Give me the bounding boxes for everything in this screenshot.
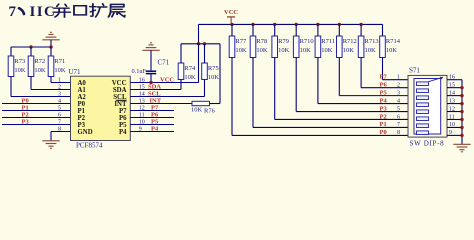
wire top-left rail <box>11 46 51 48</box>
wire pin16 VCC <box>130 82 198 84</box>
IC U71 right pin names <box>112 80 127 136</box>
wire R79 to S71 pin6 <box>275 58 408 120</box>
node bus junction pin13 <box>460 102 463 105</box>
wire ground bus right <box>461 80 463 145</box>
wire R79 top lead <box>274 24 276 36</box>
svg-text:8: 8 <box>58 126 61 132</box>
resistor R710 <box>293 36 313 58</box>
svg-text:P3: P3 <box>380 105 388 112</box>
svg-text:U71: U71 <box>69 68 82 76</box>
svg-text:10K: 10K <box>321 47 333 54</box>
svg-text:P0: P0 <box>22 97 29 104</box>
wire R713 top lead <box>360 24 362 36</box>
svg-text:R73: R73 <box>14 58 25 65</box>
svg-text:SCL: SCL <box>148 90 161 97</box>
capacitor C71 designator <box>158 59 170 67</box>
switch S71 designator <box>409 67 420 75</box>
wire R712 to S71 pin3 <box>339 58 408 96</box>
svg-text:P4: P4 <box>119 129 127 136</box>
svg-text:P2: P2 <box>22 111 29 118</box>
svg-text:14: 14 <box>449 90 455 96</box>
svg-text:3: 3 <box>58 91 61 97</box>
net label P2 <box>22 111 29 118</box>
wire R77 to S71 pin8 <box>232 58 408 136</box>
svg-text:P5: P5 <box>119 122 127 129</box>
wire R78 to S71 pin7 <box>253 58 408 128</box>
wire GND pin8 <box>51 132 71 141</box>
svg-text:P7: P7 <box>380 74 388 81</box>
node R712 rail junction <box>338 23 341 26</box>
svg-text:10K: 10K <box>256 47 268 54</box>
svg-text:S71: S71 <box>409 67 420 75</box>
wire net P2 to pin6 <box>2 117 71 119</box>
node R79 rail junction <box>273 23 276 26</box>
svg-text:A1: A1 <box>78 87 87 94</box>
wire R73 to pin3 <box>11 77 71 97</box>
svg-text:10K: 10K <box>191 107 203 114</box>
svg-text:10K: 10K <box>278 47 290 54</box>
net label P1 <box>22 104 29 111</box>
title text 7、IIC并口扩展 <box>9 4 125 20</box>
resistor R72 <box>28 56 46 77</box>
net label P6 at S71 <box>380 81 388 88</box>
wire net P1 to pin5 <box>2 110 71 112</box>
wire R71 to pin1 <box>51 77 71 83</box>
svg-text:5: 5 <box>397 106 400 112</box>
wire R710 top lead <box>295 24 297 36</box>
svg-text:R75: R75 <box>208 65 219 72</box>
svg-text:10K: 10K <box>343 47 355 54</box>
svg-text:P4: P4 <box>380 97 388 104</box>
node R78 rail junction <box>251 23 254 26</box>
wire R75 top lead <box>204 44 206 63</box>
node bus junction pin12 <box>460 110 463 113</box>
svg-text:6: 6 <box>58 112 61 118</box>
svg-text:R77: R77 <box>235 38 247 45</box>
svg-text:PCF8574: PCF8574 <box>76 142 103 150</box>
wire SCL pin14 <box>130 80 204 97</box>
node R77 rail junction <box>230 23 233 26</box>
svg-text:1: 1 <box>58 77 61 83</box>
svg-text:15: 15 <box>449 82 455 88</box>
switch S71 actuator arrow <box>429 77 444 82</box>
resistor R711 <box>315 36 335 58</box>
wire R714 top lead <box>382 24 384 36</box>
switch S71 sliders <box>417 82 429 135</box>
wire INT pin13 to R76 <box>130 103 192 105</box>
svg-text:C71: C71 <box>158 59 170 67</box>
wire S71 right pins to bus <box>447 80 462 136</box>
wire R72 top lead <box>30 47 32 56</box>
svg-text:10K: 10K <box>365 47 377 54</box>
svg-text:10K: 10K <box>184 74 196 81</box>
net label VCC middle <box>160 76 174 83</box>
net label P0 <box>22 97 29 104</box>
svg-text:10K: 10K <box>54 67 66 74</box>
node bus junction pin15 <box>460 86 463 89</box>
wire R73 top lead <box>10 47 12 56</box>
svg-text:INT: INT <box>114 101 127 108</box>
wire R74 R75 top connector <box>181 43 220 45</box>
capacitor C71 <box>146 71 156 82</box>
wire R710 to S71 pin5 <box>296 58 408 112</box>
net label P5 at chip <box>151 118 159 125</box>
S71 left pin numbers 1-8 <box>397 75 400 137</box>
wire VCC riser <box>198 24 200 82</box>
op-amp U1 designator U71 label <box>69 68 82 76</box>
resistor R71 <box>48 56 66 77</box>
wire net P7 stub <box>130 110 174 112</box>
svg-text:R714: R714 <box>386 38 401 45</box>
svg-text:2: 2 <box>58 84 61 90</box>
ground bottom-right <box>453 144 470 152</box>
svg-text:A0: A0 <box>78 80 87 87</box>
ground top-left <box>42 32 59 47</box>
ground above C71 <box>142 43 159 71</box>
wire R714 to S71 pin1 <box>383 58 409 80</box>
node C71 junction on VCC wire <box>149 81 152 84</box>
ground bottom-left <box>42 141 59 149</box>
node bus junction pin11 <box>460 118 463 121</box>
wire R76 to VCC riser <box>210 44 221 104</box>
svg-text:IIC: IIC <box>30 4 57 20</box>
IC U71 PCF8574 body <box>71 76 131 140</box>
resistor R79 <box>272 36 290 58</box>
svg-text:P6: P6 <box>380 81 388 88</box>
wire net P0 to pin4 <box>2 103 71 105</box>
resistor R73 <box>8 56 26 77</box>
net label P2 at S71 <box>380 113 387 120</box>
svg-text:SDA: SDA <box>113 87 127 94</box>
svg-text:P1: P1 <box>78 108 86 115</box>
IC U71 part type label PCF8574 <box>76 142 103 150</box>
wire R711 top lead <box>317 24 319 36</box>
net label P7 at chip <box>151 104 159 111</box>
svg-text:10K: 10K <box>14 67 26 74</box>
wire SDA pin15 <box>130 80 181 90</box>
svg-text:4: 4 <box>397 98 400 104</box>
svg-text:P2: P2 <box>78 115 86 122</box>
svg-text:12: 12 <box>449 106 455 112</box>
wire R72 to pin2 <box>31 77 71 90</box>
wire R713 to S71 pin2 <box>361 58 408 88</box>
resistor R714 <box>380 36 401 58</box>
svg-text:R72: R72 <box>34 58 45 65</box>
svg-text:10K: 10K <box>386 47 398 54</box>
svg-text:R711: R711 <box>321 38 335 45</box>
svg-text:P1: P1 <box>380 121 387 128</box>
svg-text:P3: P3 <box>78 122 86 129</box>
svg-text:R71: R71 <box>54 58 65 65</box>
svg-text:P6: P6 <box>119 115 127 122</box>
svg-text:R79: R79 <box>278 38 289 45</box>
svg-text:7: 7 <box>58 119 61 125</box>
node R710 rail junction <box>295 23 298 26</box>
wire R711 to S71 pin4 <box>318 58 408 104</box>
svg-text:10K: 10K <box>208 74 220 81</box>
wire R78 top lead <box>252 24 254 36</box>
svg-text:VCC: VCC <box>112 80 127 87</box>
svg-text:10K: 10K <box>235 47 247 54</box>
svg-text:2: 2 <box>397 82 400 88</box>
svg-text:P1: P1 <box>22 104 29 111</box>
resistor R75 <box>202 63 220 81</box>
power VCC symbol top <box>224 9 238 25</box>
net label SCL <box>148 90 161 97</box>
svg-text:7: 7 <box>9 4 17 20</box>
net label P4 at chip <box>151 125 159 132</box>
svg-text:P3: P3 <box>22 118 30 125</box>
svg-text:P4: P4 <box>151 125 159 132</box>
IC U71 left pin numbers 1-8 <box>58 77 61 132</box>
net label SDA <box>148 83 161 90</box>
svg-text:5: 5 <box>58 105 61 111</box>
svg-text:R712: R712 <box>343 38 357 45</box>
svg-text:11: 11 <box>449 114 455 120</box>
svg-text:SDA: SDA <box>148 83 161 90</box>
net label P4 at S71 <box>380 97 388 104</box>
resistor R78 <box>250 36 268 58</box>
net label P5 at S71 <box>380 89 388 96</box>
IC U71 right pin numbers 16-9 <box>139 77 145 132</box>
wire R77 top lead <box>231 24 233 36</box>
wire VCC rail <box>199 23 383 25</box>
svg-text:P5: P5 <box>380 89 388 96</box>
svg-text:10K: 10K <box>300 47 312 54</box>
net label P7 at S71 <box>380 74 388 81</box>
capacitor C71 value 0.1uF <box>132 68 147 75</box>
net label P3 <box>22 118 30 125</box>
node bus junction pin10 <box>460 126 463 129</box>
svg-text:R78: R78 <box>256 38 267 45</box>
svg-text:10: 10 <box>449 122 455 128</box>
svg-text:P5: P5 <box>151 118 159 125</box>
svg-text:R76: R76 <box>204 108 216 115</box>
svg-text:R74: R74 <box>184 65 196 72</box>
svg-text:P0: P0 <box>78 101 86 108</box>
svg-text:0.1uF: 0.1uF <box>132 68 147 75</box>
net label P1 at S71 <box>380 121 387 128</box>
wire net P4 stub <box>130 131 174 133</box>
node R72 top junction <box>29 45 32 48</box>
wire R712 top lead <box>338 24 340 36</box>
svg-text:GND: GND <box>78 129 93 136</box>
resistor R713 <box>358 36 378 58</box>
switch S71 type label SW DIP-8 <box>410 139 445 147</box>
IC U71 left pin names <box>78 80 93 136</box>
svg-text:P7: P7 <box>151 104 159 111</box>
node R71 top junction <box>49 45 52 48</box>
svg-text:8: 8 <box>397 130 400 136</box>
wire net P3 to pin7 <box>2 124 71 126</box>
node R75 top junction <box>203 42 206 45</box>
node bus junction pin9 <box>460 134 463 137</box>
svg-text:P7: P7 <box>119 108 127 115</box>
svg-text:VCC: VCC <box>224 9 238 16</box>
svg-text:P2: P2 <box>380 113 387 120</box>
svg-text:R713: R713 <box>365 38 379 45</box>
svg-text:P0: P0 <box>380 129 387 136</box>
svg-text:13: 13 <box>449 98 455 104</box>
wire net P5 stub <box>130 124 174 126</box>
resistor R76 <box>191 101 216 114</box>
node R711 rail junction <box>316 23 319 26</box>
svg-text:9: 9 <box>449 130 452 136</box>
node R713 rail junction <box>359 23 362 26</box>
svg-text:SW DIP-8: SW DIP-8 <box>410 139 445 147</box>
svg-text:A2: A2 <box>78 94 87 101</box>
svg-text:10K: 10K <box>34 67 46 74</box>
wire R74 top lead <box>180 44 182 63</box>
svg-text:INT: INT <box>150 97 162 104</box>
svg-text:6: 6 <box>397 114 400 120</box>
switch S71 body <box>408 75 447 137</box>
svg-text:R710: R710 <box>300 38 314 45</box>
svg-text:16: 16 <box>449 75 455 81</box>
net label INT <box>150 97 162 104</box>
svg-text:VCC: VCC <box>160 76 174 83</box>
svg-text:P6: P6 <box>151 111 159 118</box>
node bus junction pin14 <box>460 94 463 97</box>
wire net P6 stub <box>130 117 174 119</box>
net label P6 at chip <box>151 111 159 118</box>
net label P0 at S71 <box>380 129 387 136</box>
S71 right pin numbers 16-9 <box>449 75 455 137</box>
svg-text:1: 1 <box>397 75 400 81</box>
wire R71 top lead <box>50 47 52 56</box>
node VCC riser junction <box>197 42 200 45</box>
net label P3 at S71 <box>380 105 388 112</box>
svg-text:3: 3 <box>397 90 400 96</box>
resistor R77 <box>229 36 247 58</box>
svg-text:7: 7 <box>397 122 400 128</box>
resistor R712 <box>337 36 357 58</box>
resistor R74 <box>178 63 196 81</box>
svg-text:4: 4 <box>58 98 61 104</box>
